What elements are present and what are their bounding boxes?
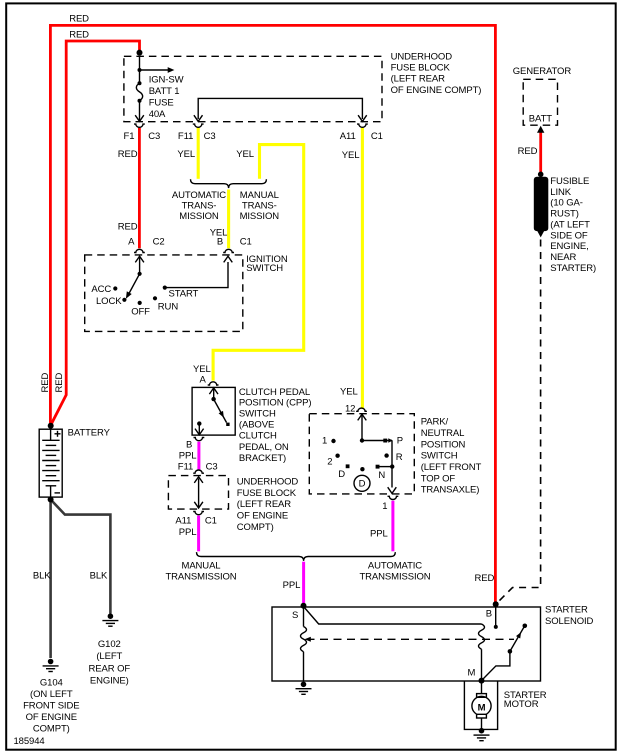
svg-text:C1: C1 [240, 236, 252, 247]
svg-text:B: B [186, 439, 192, 450]
svg-text:FUSIBLE: FUSIBLE [550, 176, 589, 187]
svg-text:S: S [292, 610, 298, 621]
svg-text:BRACKET): BRACKET) [239, 453, 286, 464]
svg-text:COMPT): COMPT) [33, 724, 70, 735]
svg-text:RED: RED [475, 573, 495, 584]
svg-text:OF ENGINE: OF ENGINE [26, 712, 77, 723]
svg-text:LOCK: LOCK [96, 296, 122, 307]
svg-text:STARTER): STARTER) [550, 263, 596, 274]
svg-text:FUSE BLOCK: FUSE BLOCK [391, 63, 451, 74]
svg-text:GENERATOR: GENERATOR [513, 66, 572, 77]
svg-text:YEL: YEL [177, 149, 195, 160]
svg-text:M: M [468, 668, 476, 679]
svg-text:PPL: PPL [370, 529, 388, 540]
svg-text:SIDE OF: SIDE OF [550, 230, 588, 241]
svg-text:TRANSMISSION: TRANSMISSION [359, 572, 430, 583]
svg-text:1: 1 [382, 501, 387, 512]
svg-text:MANUAL: MANUAL [240, 190, 279, 201]
svg-text:IGN-SW: IGN-SW [149, 75, 184, 86]
svg-text:R: R [396, 452, 403, 463]
svg-text:ENGINE,: ENGINE, [550, 241, 588, 252]
svg-text:G102: G102 [98, 639, 121, 650]
svg-text:CLUTCH PEDAL: CLUTCH PEDAL [239, 387, 310, 398]
svg-text:A: A [128, 236, 135, 247]
svg-text:185944: 185944 [14, 736, 45, 747]
svg-text:A11: A11 [340, 131, 356, 142]
svg-text:PARK/: PARK/ [421, 417, 449, 428]
svg-text:NEUTRAL: NEUTRAL [421, 428, 465, 439]
svg-text:MANUAL: MANUAL [182, 561, 221, 572]
svg-text:ENGINE): ENGINE) [90, 675, 129, 686]
svg-text:12: 12 [345, 404, 355, 415]
svg-text:LINK: LINK [550, 187, 571, 198]
svg-text:PPL: PPL [179, 527, 197, 538]
svg-text:D: D [359, 479, 366, 490]
svg-text:B: B [486, 608, 492, 619]
svg-text:(LEFT REAR: (LEFT REAR [391, 74, 445, 85]
svg-text:ACC: ACC [91, 284, 111, 295]
svg-text:(LEFT REAR: (LEFT REAR [237, 499, 291, 510]
svg-text:STARTER: STARTER [545, 605, 588, 616]
svg-text:PEDAL, ON: PEDAL, ON [239, 442, 289, 453]
svg-text:POSITION (CPP): POSITION (CPP) [239, 398, 312, 409]
svg-text:RED: RED [40, 373, 51, 393]
svg-text:UNDERHOOD: UNDERHOOD [237, 476, 299, 487]
svg-text:D: D [338, 469, 345, 480]
svg-text:MISSION: MISSION [240, 211, 280, 222]
svg-text:F11: F11 [178, 462, 193, 473]
svg-text:START: START [169, 288, 199, 299]
svg-text:BLK: BLK [90, 571, 108, 582]
svg-text:PPL: PPL [283, 580, 301, 591]
svg-text:OF ENGINE: OF ENGINE [237, 511, 288, 522]
svg-text:RED: RED [54, 373, 65, 393]
svg-text:MISSION: MISSION [179, 211, 219, 222]
svg-text:C1: C1 [371, 131, 383, 142]
svg-text:RED: RED [69, 13, 89, 24]
svg-text:F1: F1 [124, 131, 135, 142]
svg-text:SWITCH: SWITCH [246, 263, 283, 274]
svg-text:PPL: PPL [179, 450, 197, 461]
svg-text:M: M [478, 702, 486, 713]
svg-text:YEL: YEL [236, 149, 254, 160]
svg-text:BATTERY: BATTERY [68, 428, 111, 439]
svg-text:FUSE BLOCK: FUSE BLOCK [237, 488, 297, 499]
svg-text:C1: C1 [205, 515, 217, 526]
svg-text:FRONT SIDE: FRONT SIDE [23, 701, 79, 712]
svg-text:YEL: YEL [342, 150, 360, 161]
svg-text:SOLENOID: SOLENOID [545, 616, 594, 627]
svg-text:F11: F11 [178, 131, 193, 142]
svg-text:(LEFT: (LEFT [96, 651, 122, 662]
svg-text:TOP OF: TOP OF [421, 473, 456, 484]
svg-text:POSITION: POSITION [421, 439, 466, 450]
svg-text:RED: RED [118, 149, 138, 160]
svg-text:AUTOMATIC: AUTOMATIC [172, 190, 226, 201]
svg-text:RED: RED [118, 221, 138, 232]
svg-text:RUN: RUN [158, 301, 179, 312]
svg-text:C2: C2 [153, 236, 165, 247]
svg-text:YEL: YEL [193, 364, 211, 375]
svg-text:COMPT): COMPT) [237, 522, 274, 533]
svg-text:REAR OF: REAR OF [89, 663, 131, 674]
svg-text:CLUTCH: CLUTCH [239, 431, 277, 442]
svg-text:AUTOMATIC: AUTOMATIC [368, 561, 422, 572]
svg-text:RED: RED [69, 30, 89, 41]
svg-text:P: P [397, 436, 403, 447]
svg-text:40A: 40A [149, 109, 166, 120]
svg-text:(ON LEFT: (ON LEFT [30, 689, 73, 700]
svg-text:YEL: YEL [340, 387, 358, 398]
svg-text:TRANSMISSION: TRANSMISSION [165, 572, 236, 583]
svg-text:C3: C3 [204, 131, 216, 142]
svg-text:OFF: OFF [131, 307, 150, 318]
svg-text:UNDERHOOD: UNDERHOOD [391, 52, 453, 63]
svg-text:BLK: BLK [33, 571, 51, 582]
svg-text:SWITCH: SWITCH [421, 451, 458, 462]
svg-text:MOTOR: MOTOR [504, 699, 539, 710]
svg-text:SWITCH: SWITCH [239, 409, 276, 420]
svg-text:A: A [200, 374, 207, 385]
svg-text:N: N [378, 470, 385, 481]
svg-text:(LEFT FRONT: (LEFT FRONT [421, 462, 482, 473]
svg-text:A11: A11 [175, 515, 191, 526]
svg-text:NEAR: NEAR [550, 252, 576, 263]
svg-text:(AT LEFT: (AT LEFT [550, 219, 590, 230]
svg-text:(ABOVE: (ABOVE [239, 420, 274, 431]
svg-text:BATT 1: BATT 1 [149, 86, 180, 97]
svg-text:1: 1 [322, 436, 327, 447]
svg-text:OF ENGINE COMPT): OF ENGINE COMPT) [391, 85, 482, 96]
svg-text:RED: RED [518, 146, 538, 157]
svg-text:2: 2 [327, 457, 332, 468]
svg-text:C3: C3 [148, 131, 160, 142]
svg-text:C3: C3 [206, 462, 218, 473]
svg-text:TRANSAXLE): TRANSAXLE) [421, 485, 480, 496]
svg-text:(10 GA-: (10 GA- [550, 198, 583, 209]
svg-text:B: B [217, 236, 223, 247]
svg-text:G104: G104 [40, 678, 63, 689]
svg-text:RUST): RUST) [550, 209, 579, 220]
svg-text:BATT: BATT [529, 114, 552, 125]
svg-text:FUSE: FUSE [149, 98, 174, 109]
